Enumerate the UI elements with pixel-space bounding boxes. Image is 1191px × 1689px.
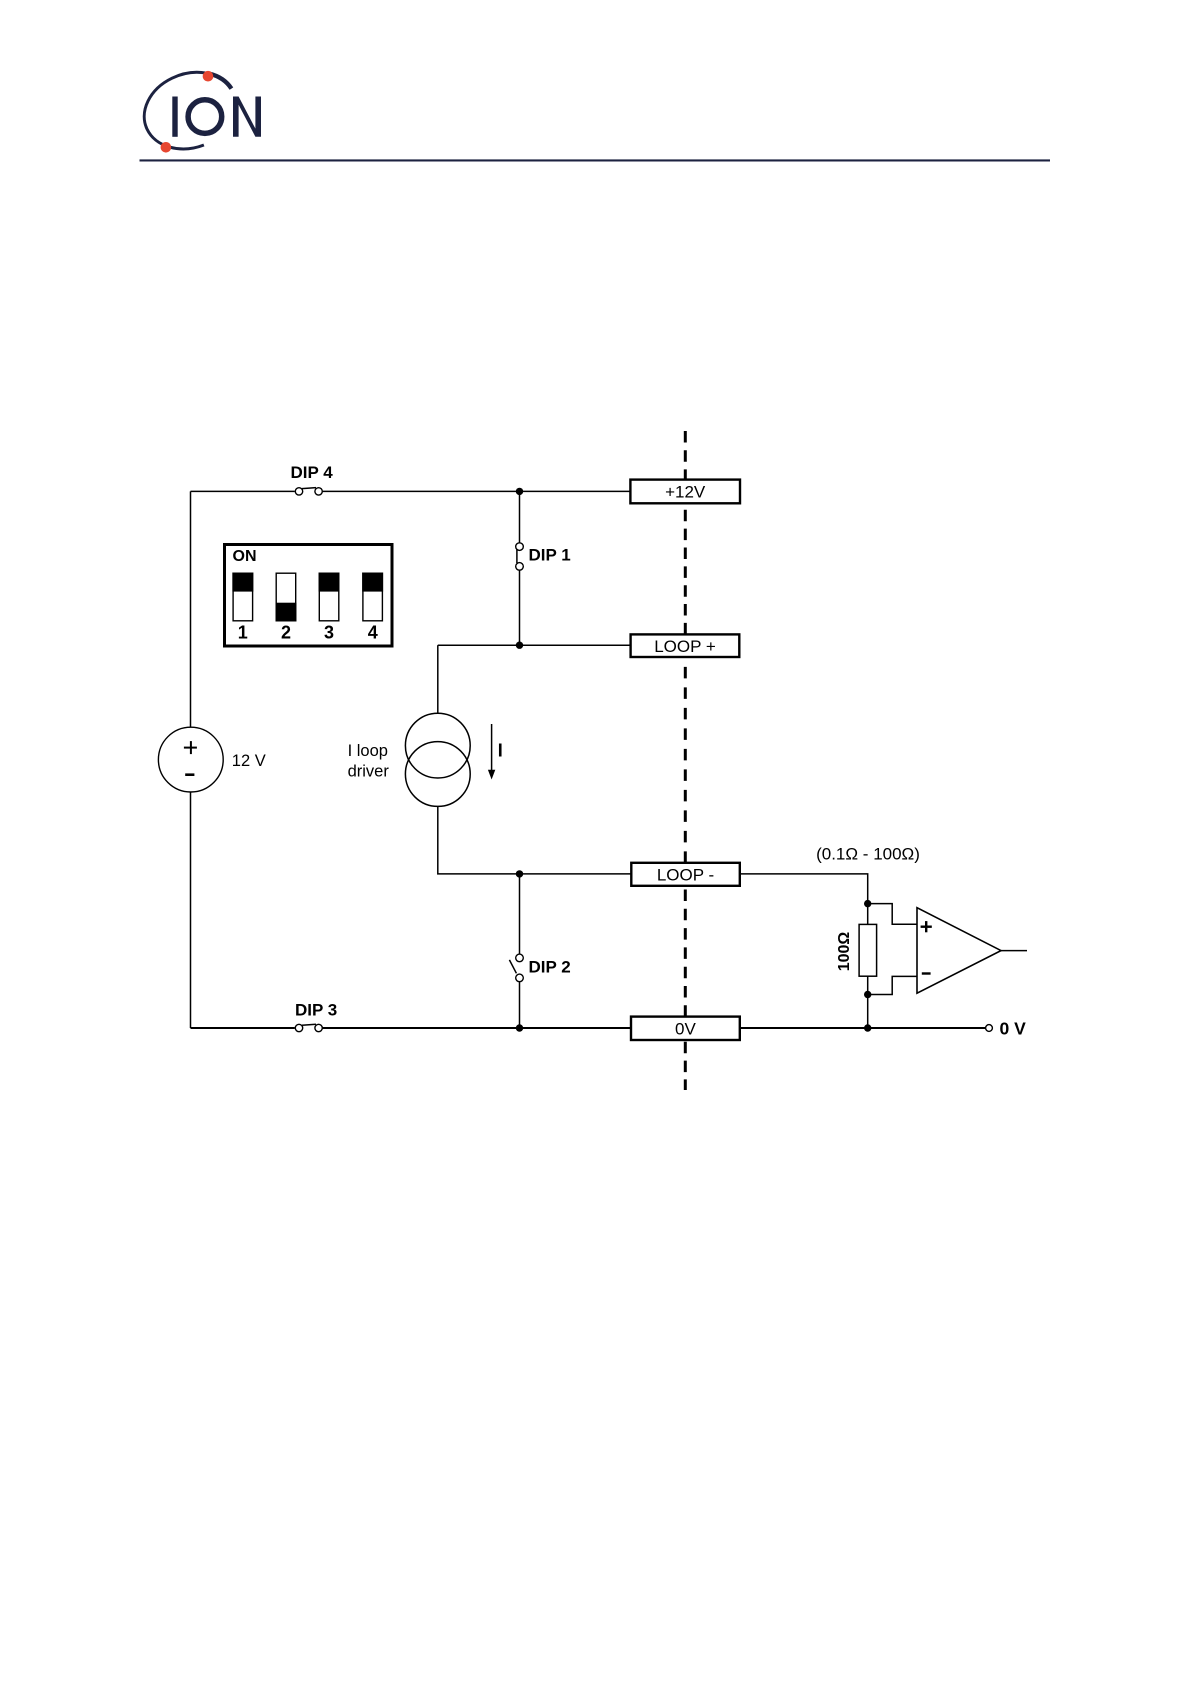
svg-text:driver: driver: [348, 762, 390, 780]
svg-text:ON: ON: [233, 548, 257, 565]
svg-text:DIP 2: DIP 2: [529, 957, 571, 976]
svg-text:(0.1Ω - 100Ω): (0.1Ω - 100Ω): [816, 845, 920, 864]
svg-text:I: I: [498, 741, 503, 761]
svg-text:100Ω: 100Ω: [836, 932, 853, 972]
svg-text:2: 2: [281, 622, 291, 642]
svg-text:4: 4: [368, 622, 378, 642]
svg-text:1: 1: [238, 622, 248, 642]
svg-text:0 V: 0 V: [1000, 1019, 1027, 1039]
svg-text:DIP 4: DIP 4: [291, 463, 334, 482]
svg-text:+12V: +12V: [665, 483, 706, 502]
svg-text:LOOP +: LOOP +: [654, 637, 716, 656]
svg-text:DIP 1: DIP 1: [529, 546, 571, 565]
svg-text:12 V: 12 V: [232, 752, 266, 770]
svg-text:3: 3: [324, 622, 334, 642]
svg-text:I loop: I loop: [348, 742, 388, 760]
svg-text:0V: 0V: [675, 1020, 696, 1039]
svg-text:DIP 3: DIP 3: [295, 1001, 337, 1020]
svg-text:LOOP -: LOOP -: [657, 866, 714, 885]
